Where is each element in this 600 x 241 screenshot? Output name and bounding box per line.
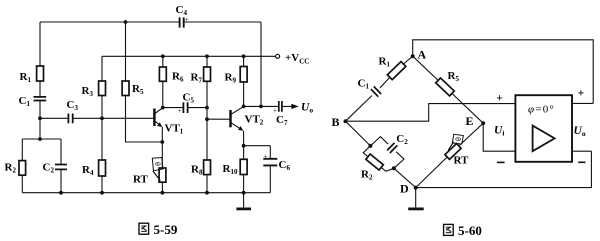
capacitor C4 xyxy=(176,4,189,28)
wire D bottom rail to right side xyxy=(416,151,592,187)
wire top rail from R1 top to C4 left xyxy=(40,21,179,23)
svg-text:C6: C6 xyxy=(279,159,291,172)
ground (figure 5-60) xyxy=(408,188,424,209)
wire R5 down to emitter branch xyxy=(126,96,163,143)
node VCC R9 xyxy=(242,54,246,58)
wire R7 down through C5 node to base node xyxy=(206,81,208,160)
svg-text:RT: RT xyxy=(133,174,149,186)
caption 图 5-59 xyxy=(139,222,178,237)
node rail R8 xyxy=(205,191,209,195)
wire C4 feedback vertical down to output node xyxy=(260,22,262,106)
svg-text:C7: C7 xyxy=(276,114,288,127)
svg-text:E: E xyxy=(466,114,474,128)
wire VT2 emitter down xyxy=(243,131,245,146)
wire R6 top to VCC rail xyxy=(162,56,164,67)
caption 图 5-60 xyxy=(444,223,482,238)
svg-text:+: + xyxy=(178,107,182,115)
svg-text:C2: C2 xyxy=(43,162,55,175)
node rail C2 xyxy=(59,191,63,195)
svg-text:R10: R10 xyxy=(223,163,238,176)
node VT1 collector xyxy=(161,106,165,110)
svg-text:VT2: VT2 xyxy=(245,114,264,127)
node VT2 collector output xyxy=(242,105,246,109)
wire lens upper edge to C2 xyxy=(370,137,388,146)
svg-text:R1: R1 xyxy=(20,71,32,84)
svg-text:D: D xyxy=(400,182,409,196)
node top-rail junction with R5 column xyxy=(124,20,128,24)
wire VT2 collector up to R9 xyxy=(243,82,245,106)
svg-text:R9: R9 xyxy=(225,72,237,85)
capacitor C6 xyxy=(263,153,290,173)
wire lens right to D xyxy=(394,168,416,187)
wire amplifier - output xyxy=(572,150,591,152)
svg-text:C1: C1 xyxy=(19,95,31,108)
svg-text:R3: R3 xyxy=(82,85,94,98)
node lens left xyxy=(368,144,372,148)
wire C2 to lens right node xyxy=(394,152,404,169)
wire arm B to C1 xyxy=(346,96,373,122)
node VT2 emitter xyxy=(242,144,246,148)
resistor R7 xyxy=(191,67,211,85)
svg-text:R5: R5 xyxy=(448,70,460,83)
thermistor RT (bridge) xyxy=(445,134,469,166)
resistor R10 xyxy=(223,159,248,176)
wire R5 column from top rail xyxy=(125,22,127,81)
svg-text:R7: R7 xyxy=(191,72,203,85)
resistor R5 xyxy=(122,81,144,96)
svg-text:+VCC: +VCC xyxy=(285,52,309,66)
svg-text:R4: R4 xyxy=(82,164,94,177)
resistor R8 xyxy=(191,160,211,177)
wire arm B to lens node xyxy=(346,121,371,146)
node C3 tap xyxy=(38,116,42,120)
wire R3 to base node xyxy=(101,96,103,119)
svg-text:+: + xyxy=(264,153,268,161)
node rail R4 xyxy=(100,191,104,195)
node D xyxy=(400,182,418,196)
wire R3 column top xyxy=(101,56,103,81)
wire top rail from C4 right to right corner xyxy=(184,21,261,23)
resistor R6 xyxy=(159,67,184,84)
capacitor C1 (bridge) xyxy=(358,78,382,97)
label - output xyxy=(578,161,585,163)
svg-text:+: + xyxy=(273,107,277,115)
node R2C2 branch top xyxy=(38,137,42,141)
node A xyxy=(411,48,427,62)
svg-text:R2: R2 xyxy=(361,169,373,182)
transistor VT2 xyxy=(231,107,264,131)
wire R5 to E xyxy=(452,93,483,123)
capacitor C1 xyxy=(19,95,47,108)
svg-text:R5: R5 xyxy=(132,83,144,96)
wire C3 to R3 column xyxy=(73,117,102,119)
wire amplifier + output to right rail xyxy=(572,102,593,104)
capacitor C3 xyxy=(67,99,79,123)
wire R1 to C1 xyxy=(39,81,41,97)
wire C2 top lead xyxy=(60,139,62,164)
wire C5 to R7 column xyxy=(188,107,207,109)
wire emitter node to R10 xyxy=(243,146,245,160)
svg-text:5-60: 5-60 xyxy=(458,223,482,238)
svg-text:Uo: Uo xyxy=(574,125,586,138)
node lens right xyxy=(392,166,396,170)
wire C6 bottom to rail xyxy=(269,166,271,193)
wire B to amplifier + input with step xyxy=(346,104,516,122)
svg-text:C2: C2 xyxy=(396,133,408,146)
wire C7 to output arrow xyxy=(282,105,291,107)
svg-text:C3: C3 xyxy=(67,99,79,112)
resistor R1 (bridge) xyxy=(379,56,406,80)
wire VT1 base lead xyxy=(102,117,154,119)
capacitor C2 xyxy=(43,162,68,175)
wire R4 to rail xyxy=(101,176,103,193)
transistor VT1 xyxy=(154,108,183,136)
wire base node down to R4 xyxy=(101,118,103,160)
svg-text:θ: θ xyxy=(453,136,463,142)
wire C2 bottom lead xyxy=(60,170,62,193)
wire R9 top to VCC rail xyxy=(243,56,245,66)
wire arm D to RT xyxy=(416,157,448,188)
wire emitter to RT xyxy=(161,142,163,168)
resistor R2 (bridge) xyxy=(361,154,383,181)
node VT1 emitter xyxy=(160,140,164,144)
svg-text:B: B xyxy=(332,115,340,129)
svg-text:VT1: VT1 xyxy=(165,123,184,136)
wire VT1 collector up to R6 xyxy=(162,81,164,107)
resistor R5 (bridge) xyxy=(436,70,460,96)
wire R10 to rail xyxy=(243,175,245,193)
svg-text:A: A xyxy=(418,48,427,62)
wire R1 to A xyxy=(403,56,412,64)
svg-text:C5: C5 xyxy=(183,92,195,105)
capacitor C5 xyxy=(178,92,195,115)
wire RT to E xyxy=(459,123,483,146)
wire VT2 base lead xyxy=(207,118,230,120)
resistor R4 xyxy=(82,160,106,177)
svg-text:+: + xyxy=(578,88,585,100)
node C4 vertical joins output wire xyxy=(259,105,263,109)
op-amp U1 box xyxy=(515,95,572,162)
wire left column from top rail down to R1 xyxy=(39,22,41,66)
svg-text:R2: R2 xyxy=(5,162,17,175)
wire C1 to R1 xyxy=(380,77,390,88)
wire R8 to rail xyxy=(206,175,208,193)
svg-text:RT: RT xyxy=(454,155,470,167)
wire R7 column top xyxy=(206,56,208,67)
wire to C3 xyxy=(40,117,68,119)
wire collector node to C5 xyxy=(163,107,183,109)
svg-text:R6: R6 xyxy=(172,71,184,84)
wire RT bottom to rail xyxy=(161,182,163,193)
svg-text:θ: θ xyxy=(153,161,163,167)
wire A up and top rail to right side xyxy=(413,40,594,104)
thermistor RT xyxy=(133,158,166,186)
node C5 R7 junction xyxy=(205,106,209,110)
wire arm A to R5 xyxy=(413,56,438,80)
node rail ground xyxy=(242,191,246,195)
node VCC R7 xyxy=(205,54,209,58)
node VCC R6 xyxy=(161,54,165,58)
resistor R2 xyxy=(5,161,26,176)
ground xyxy=(236,193,251,209)
svg-text:R8: R8 xyxy=(191,164,203,177)
node VT1 base divider xyxy=(100,116,104,120)
svg-text:5-59: 5-59 xyxy=(154,222,178,237)
svg-text:Ui: Ui xyxy=(494,125,504,138)
wire R2 top lead xyxy=(21,139,23,161)
svg-text:C1: C1 xyxy=(358,78,370,91)
wire VT1 emitter down xyxy=(161,127,163,142)
wire output from collector to C7 xyxy=(244,105,279,107)
wire emitter branch to C6 xyxy=(244,146,271,159)
svg-text:φ=0°: φ=0° xyxy=(528,104,555,116)
wire lens lower edge to R2 xyxy=(363,146,370,157)
wire C1 down to R2/C2 branch xyxy=(39,101,41,139)
node B xyxy=(332,115,348,129)
capacitor C7 xyxy=(273,101,288,127)
terminal +VCC xyxy=(276,52,310,66)
resistor R1 xyxy=(20,66,44,84)
node VT2 base junction xyxy=(205,117,209,121)
svg-text:Uo: Uo xyxy=(301,102,313,115)
label - input xyxy=(497,161,505,163)
wire R2 bottom lead xyxy=(21,175,23,193)
svg-text:R1: R1 xyxy=(379,56,391,69)
output arrow Uo xyxy=(291,102,313,115)
node rail RT xyxy=(161,191,165,195)
capacitor C2 (bridge) xyxy=(387,133,408,153)
svg-text:+: + xyxy=(496,93,503,105)
wire branch to R2 and C2 xyxy=(22,138,61,140)
resistor R9 xyxy=(225,67,248,85)
wire R2 to lens right node xyxy=(381,167,394,171)
node E xyxy=(466,114,486,128)
resistor R3 xyxy=(82,81,106,98)
wire E down to amplifier - input xyxy=(483,123,515,151)
wire VCC rail xyxy=(102,55,276,57)
wire ground rail xyxy=(22,192,270,194)
